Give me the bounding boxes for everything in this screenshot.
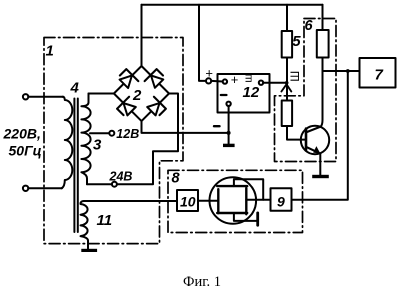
enclosure box 6 (dash-dot, stepped) [275, 19, 337, 162]
svg-text:3: 3 [93, 137, 102, 154]
enclosure box 8 (dash-dot) [168, 170, 303, 232]
svg-text:11: 11 [97, 212, 113, 229]
diode VD top-right [145, 69, 164, 88]
svg-text:4: 4 [70, 80, 80, 97]
tap terminal 24В [112, 182, 117, 187]
wire bridge right vertex staircase to 24В tap [117, 94, 178, 185]
wire rail to resistor 5 [286, 5, 288, 31]
svg-text:9: 9 [277, 194, 285, 210]
svg-text:Фиг. 1: Фиг. 1 [183, 274, 221, 290]
wire minus down [228, 106, 230, 145]
svg-text:220В,: 220В, [3, 126, 41, 142]
svg-text:12В: 12В [116, 127, 139, 141]
wire block 12 output to wiper [263, 82, 286, 84]
tap 12В wire [90, 132, 109, 134]
svg-text:6: 6 [305, 18, 314, 34]
wire [28, 187, 62, 189]
wire emitter down [319, 154, 321, 175]
svg-text:8: 8 [172, 171, 181, 187]
svg-text:50Гц: 50Гц [9, 143, 42, 159]
tube left electrode [217, 189, 219, 213]
junction [346, 69, 350, 73]
block 12 (stabilizer) [218, 74, 270, 113]
ground (block 12) [223, 144, 235, 147]
wire top plus rail [142, 4, 323, 6]
input terminal top [23, 94, 28, 99]
transistor emitter diagonal with arrow [306, 147, 320, 154]
svg-text:+: + [231, 72, 239, 87]
wire to transistor base [287, 126, 306, 140]
diode VD bottom-left [117, 97, 136, 116]
svg-text:1: 1 [46, 43, 54, 60]
wire feedback from box7 junction down to block 9 [292, 71, 348, 200]
tube right electrode [245, 188, 247, 214]
svg-text:12: 12 [243, 84, 260, 101]
svg-text:2: 2 [132, 87, 142, 104]
wire tube top electrode lead [234, 179, 263, 200]
wire [28, 96, 63, 98]
wire R5 to wiper junction [286, 58, 288, 101]
transformer core [73, 99, 75, 233]
tube bottom electrode [217, 212, 247, 214]
wiper arrow [281, 84, 291, 91]
transformer secondary winding 3 [81, 94, 90, 185]
transformer primary winding 4 [62, 97, 73, 189]
wire [87, 183, 112, 185]
block 9 [271, 188, 292, 210]
svg-text:ш: ш [243, 74, 255, 83]
junction [285, 81, 289, 85]
label Ш [288, 71, 302, 82]
transistor collector diagonal [306, 127, 321, 133]
diode VD top-left [120, 69, 139, 88]
ground (winding 11) [81, 249, 97, 252]
plus terminal [206, 78, 211, 83]
tap terminal 12В [109, 131, 114, 136]
pin minus [226, 102, 230, 106]
block 7 [360, 58, 396, 88]
bridge rectifier 2 : diamond [114, 66, 169, 121]
wire block10 to tube [198, 200, 218, 202]
svg-text:24В: 24В [109, 170, 133, 184]
enclosure box 1 (dash-dot, stepped) [44, 38, 183, 244]
junction [227, 131, 231, 135]
svg-text:5: 5 [292, 33, 301, 50]
block 10 [177, 190, 198, 211]
diode VD bottom-right [147, 97, 166, 116]
resistor R5 [282, 31, 292, 58]
input terminal bottom [23, 186, 28, 191]
label minus (rail) [214, 125, 220, 127]
wire bridge left vertex to winding 3 [89, 93, 114, 95]
resistor R6 [317, 30, 329, 58]
resistor R5 lower section [282, 101, 292, 127]
pin + input [223, 79, 227, 83]
svg-text:7: 7 [375, 67, 384, 84]
svg-text:10: 10 [180, 194, 196, 210]
wire bridge bottom vertex minus rail [142, 121, 229, 133]
wire R6 down to collector junction [322, 58, 324, 72]
wire tube bottom electrode lead [234, 213, 257, 221]
wire rail corner to resistor 6 [322, 5, 324, 30]
wire (winding 11 to block 10) [84, 200, 177, 202]
tube top electrode [217, 185, 247, 187]
svg-text:+: + [205, 65, 213, 80]
wire collector [321, 71, 323, 127]
svg-text:Ш: Ш [288, 71, 302, 82]
ground (emitter) [312, 175, 329, 178]
wire [211, 80, 222, 83]
electron tube (magnetron) circle [210, 177, 257, 224]
wire junction to box 7 [323, 70, 360, 72]
wire plus drop to block 12 [199, 5, 206, 81]
terminal bar (tube output) [256, 213, 259, 225]
pin ш output [259, 81, 263, 85]
wire tube right electrode to block 9 [246, 199, 270, 201]
transistor VT : circle [301, 126, 329, 154]
transistor base bar [305, 129, 308, 151]
winding 11 [81, 201, 89, 249]
wire bridge top vertex up [141, 5, 143, 66]
